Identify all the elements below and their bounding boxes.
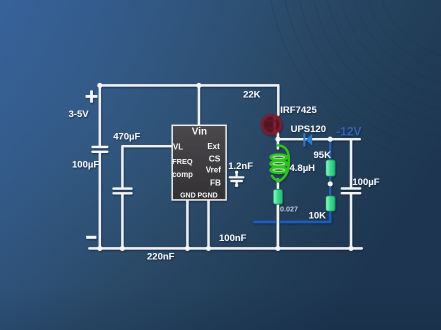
svg-text:Vref: Vref [206,166,221,175]
svg-text:3-5V: 3-5V [69,109,90,120]
capacitor 470uF [114,189,132,194]
svg-text:0.027: 0.027 [280,204,298,213]
wire switch lower [277,133,279,149]
resistor R2 10K [326,196,335,211]
svg-text:IRF7425: IRF7425 [280,105,317,116]
node rail GND [185,246,190,251]
svg-text:comp: comp [172,170,193,179]
svg-text:10K: 10K [309,211,327,222]
svg-text:GND: GND [180,193,196,200]
inductor L1 4.8uH [271,145,289,181]
capacitor 100uF right [342,188,360,193]
svg-text:100µF: 100µF [72,159,99,170]
wire Vin branch [198,85,200,125]
svg-text:100nF: 100nF [219,233,247,244]
wire sense to rail [277,204,279,249]
node Vin tap [196,83,201,88]
svg-text:1.2nF: 1.2nF [228,161,253,172]
node output tap [328,137,333,142]
wire left rail lower [99,153,101,248]
svg-text:FB: FB [210,178,221,187]
svg-text:UPS120: UPS120 [291,124,326,135]
svg-text:-12V: -12V [336,124,361,138]
node rail out [348,246,353,251]
resistor R1 95K [326,160,335,177]
svg-text:Ext: Ext [207,142,220,151]
IC U1 Vin box [172,125,226,200]
wire selected FB divider mid segment [329,176,331,197]
capacitor 1.2nF [230,171,244,187]
wire 470uF bottom [121,194,123,248]
svg-text:Vin: Vin [192,127,207,138]
wire output cap top [350,139,352,187]
svg-text:95K: 95K [314,150,332,161]
svg-text:220nF: 220nF [147,251,175,262]
resistor R sense 0.027 [273,189,282,204]
svg-text:FREQ: FREQ [172,157,193,166]
node rail sense [275,246,280,251]
wire switch to output [278,138,360,140]
svg-text:VL: VL [173,143,183,152]
svg-text:100µF: 100µF [352,177,379,188]
wire output cap bottom [350,194,352,248]
minus terminal [86,236,96,239]
svg-text:4.8µH: 4.8µH [290,163,316,174]
plus terminal [86,90,98,102]
wire 470uF top to VL [122,146,172,187]
node top-left corner [97,83,102,88]
svg-text:CS: CS [209,154,221,164]
diode D1 UPS120 [303,133,312,146]
wire top rail [100,84,278,86]
node rail PGND [206,246,211,251]
wire GND branch [186,200,188,248]
wire selected FB net L [255,211,331,222]
wire 22K switch upper [277,85,279,115]
wire selected FB divider top segment [329,141,331,161]
node rail 470 [120,246,125,251]
capacitor 100uF left [93,147,108,152]
wire bottom rail [89,247,362,249]
node rail left [97,246,102,251]
wire PGND branch [207,200,209,248]
svg-text:470µF: 470µF [113,132,140,143]
wire left rail upper [99,85,101,145]
wire inductor to sense [277,180,279,191]
wire selected blue [255,141,331,222]
junction node dots [97,83,353,251]
node divider mid [328,181,333,186]
svg-text:22K: 22K [243,89,261,100]
transistor Q1 IRF7425 [262,115,280,133]
wire sense to rail overdraw [277,204,279,249]
node switch [275,137,280,142]
svg-text:PGND: PGND [197,193,217,200]
